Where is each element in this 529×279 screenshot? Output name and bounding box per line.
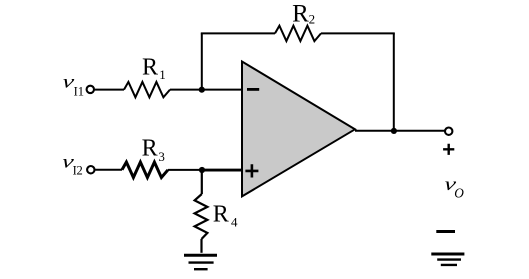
- plus polarity mark: [443, 144, 454, 155]
- resistor R1: [124, 82, 170, 97]
- wire feedback down: [393, 33, 395, 130]
- wire R4 top stub: [201, 170, 203, 194]
- svg-text:I1: I1: [74, 84, 84, 98]
- node minus-input junction: [199, 87, 205, 93]
- resistor R2: [275, 26, 321, 41]
- wire input2 mid segment: [168, 169, 202, 171]
- svg-text:2: 2: [309, 12, 316, 27]
- svg-text:4: 4: [231, 215, 238, 230]
- resistor R3: [122, 162, 168, 177]
- ground right: [431, 253, 464, 256]
- minus polarity mark: [436, 230, 455, 233]
- op-amp minus pin mark: [247, 88, 259, 91]
- svg-text:R: R: [142, 55, 158, 81]
- wire input1 left segment: [95, 89, 124, 91]
- terminal vI1: [87, 86, 94, 93]
- node plus-input junction: [199, 167, 205, 173]
- op-amp U1: [242, 62, 355, 197]
- svg-text:1: 1: [159, 67, 166, 82]
- svg-text:I2: I2: [73, 163, 83, 177]
- svg-text:R: R: [142, 135, 158, 161]
- wire top rail right: [321, 32, 395, 34]
- svg-text:O: O: [454, 185, 464, 200]
- terminal vO: [445, 128, 452, 135]
- wire top rail left: [201, 32, 275, 34]
- node output junction: [391, 128, 397, 134]
- wire node to plus input: [200, 169, 242, 172]
- wire input2 left segment: [95, 169, 122, 171]
- svg-text:R: R: [213, 202, 229, 228]
- wire feedback up: [201, 33, 203, 89]
- resistor R4: [195, 194, 208, 239]
- ground left: [184, 254, 217, 257]
- svg-text:3: 3: [158, 149, 165, 164]
- svg-text:R: R: [292, 1, 309, 28]
- wire R4 bottom stub: [200, 239, 202, 253]
- terminal vI2: [87, 166, 94, 173]
- op-amp plus pin mark: [245, 164, 258, 177]
- wire output: [355, 130, 445, 132]
- wire input1 right segment: [170, 89, 242, 91]
